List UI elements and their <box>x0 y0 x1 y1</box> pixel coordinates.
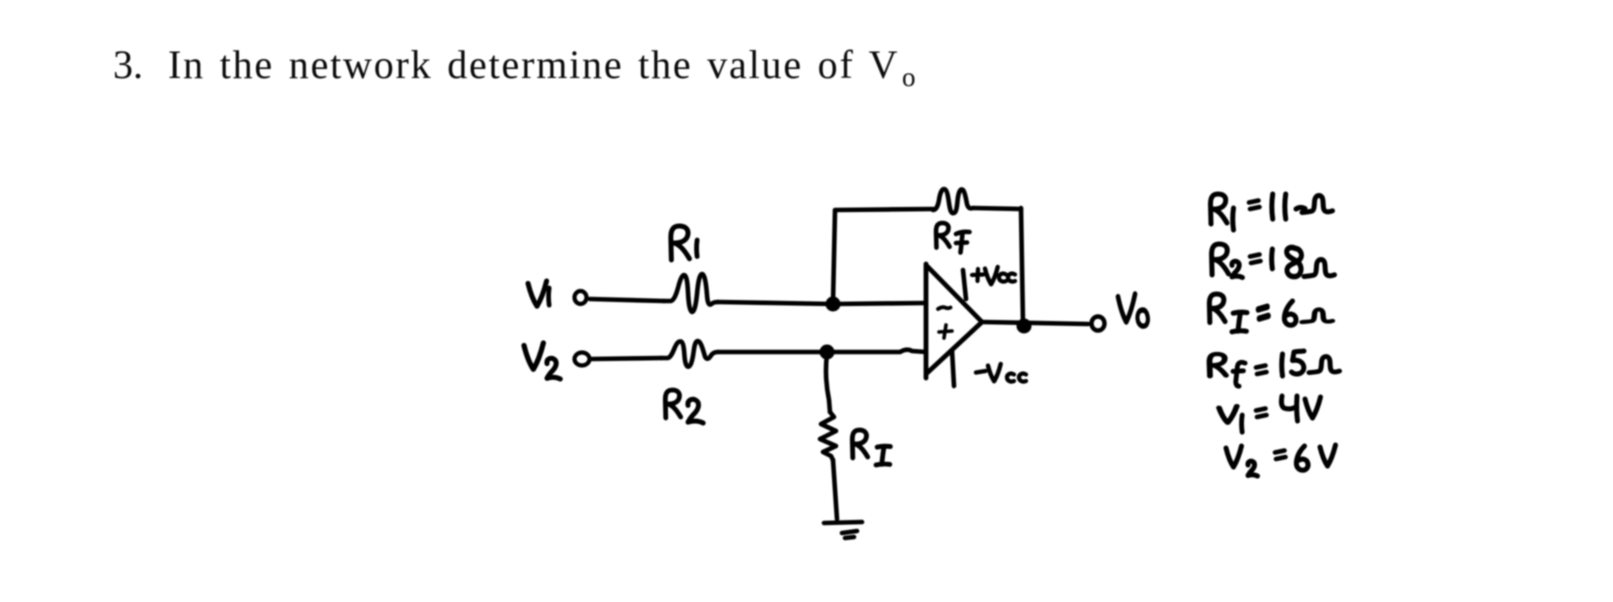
label V1 <box>528 281 549 306</box>
label +Vcc <box>972 267 1015 284</box>
wire feedback top right <box>973 208 1021 209</box>
-Vcc supply lead <box>952 350 954 386</box>
wire feedback top left <box>835 209 933 210</box>
op-amp inverting input marker <box>938 307 951 309</box>
value line RI = 6 ohm <box>1209 294 1332 332</box>
wire node B to op-amp non-inverting input <box>827 350 926 352</box>
svg-text:In the network determine the v: In the network determine the value of V <box>168 42 899 87</box>
wire node B down to RI <box>826 354 830 412</box>
value line R2 = 18 ohm <box>1212 244 1335 278</box>
svg-text:3.: 3. <box>113 42 143 87</box>
wire RI to ground <box>833 460 837 519</box>
output node junction dot <box>1017 319 1032 334</box>
terminal V1 <box>575 291 587 304</box>
wire feedback right down to output node <box>1021 208 1023 324</box>
wire op-amp output to Vo <box>982 322 1088 324</box>
resistor R1 <box>664 274 718 312</box>
terminal Vo <box>1092 317 1105 331</box>
title text <box>113 42 916 92</box>
node A junction dot <box>826 297 841 312</box>
resistor RI <box>820 412 836 460</box>
wire R2 to node B <box>718 350 827 355</box>
label RI <box>852 430 890 465</box>
label R2 <box>665 390 703 423</box>
value line R1 = 11 ohm <box>1211 194 1333 230</box>
wire node A to op-amp inverting input <box>833 303 926 304</box>
value line V1 = 4V <box>1219 396 1321 432</box>
label RF <box>936 223 969 253</box>
wire R1 to node A <box>718 302 833 304</box>
+Vcc supply lead <box>963 270 966 299</box>
wire V2 to R2 <box>592 358 661 359</box>
label R1 <box>671 226 697 260</box>
wire V1 to R1 <box>590 299 664 301</box>
terminal V2 <box>575 353 590 366</box>
node B junction dot <box>820 345 835 360</box>
label -Vcc <box>976 364 1026 382</box>
ground <box>824 522 862 523</box>
resistor RF <box>933 189 973 213</box>
label Vo <box>1118 294 1148 326</box>
resistor R2 <box>661 341 718 367</box>
op-amp non-inverting input marker <box>939 325 952 338</box>
svg-text:o: o <box>902 62 916 92</box>
value line RF = 15 ohm <box>1210 351 1340 386</box>
value line V2 = 6V <box>1226 445 1336 476</box>
wire node A up to feedback <box>833 211 835 303</box>
op-amp U1 <box>926 264 982 378</box>
label V2 <box>524 343 560 379</box>
